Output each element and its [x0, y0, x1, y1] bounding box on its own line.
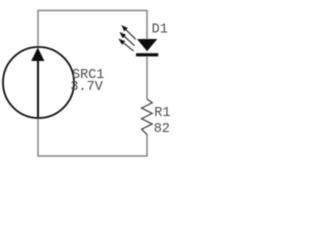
- svg-text:D1: D1: [152, 23, 168, 38]
- LED D1 cathode bar: [136, 53, 158, 56]
- svg-text:3.7V: 3.7V: [70, 80, 103, 95]
- LED arrow 1: [122, 26, 135, 39]
- current source arrow shaft: [37, 58, 39, 117]
- wire resistor to bottom to source: [38, 118, 147, 156]
- svg-text:82: 82: [154, 122, 170, 137]
- current source SRC1 circle: [3, 47, 74, 118]
- wire top from source to LED: [38, 11, 147, 48]
- LED D1 triangle: [137, 39, 157, 51]
- LED arrow 2: [121, 33, 135, 46]
- resistor R1 zigzag: [142, 99, 153, 135]
- current source arrowhead: [31, 48, 44, 62]
- LED arrow 3: [120, 40, 134, 51]
- wire LED to resistor: [146, 56, 148, 99]
- svg-text:R1: R1: [154, 106, 170, 121]
